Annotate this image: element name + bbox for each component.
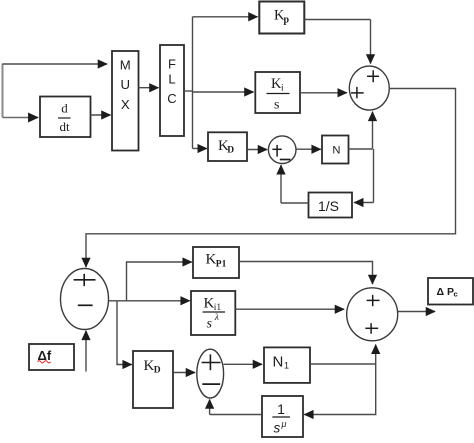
svg-text:s: s	[274, 98, 279, 113]
block N1	[264, 347, 310, 383]
wire Kp output	[304, 19, 370, 21]
block KP1	[193, 247, 239, 278]
wire branch up to KP1	[127, 262, 192, 301]
wire to Ki	[193, 91, 254, 93]
wire 1/S output	[281, 202, 309, 204]
wire KD to sum2	[247, 149, 267, 151]
svg-text:U: U	[121, 77, 131, 92]
svg-text:i: i	[281, 84, 284, 94]
svg-text:1: 1	[284, 361, 289, 371]
wire to 1/S	[354, 202, 373, 204]
wire S5 output to delta Pc	[398, 311, 435, 313]
svg-text:D: D	[227, 145, 234, 155]
wire input to MUX	[3, 63, 108, 65]
block Kp	[259, 2, 304, 34]
wire Ki1 output to S5 left	[235, 308, 344, 310]
wire up to S4 bottom	[209, 400, 211, 415]
svg-text:D: D	[154, 366, 161, 376]
block delta Pc	[428, 278, 473, 305]
svg-text:c: c	[454, 290, 458, 299]
wire N junction up to sum1	[372, 112, 374, 149]
wire down to sum1 top	[370, 20, 372, 64]
wire N1 output junction	[310, 363, 376, 365]
summing junction S5 lower right	[347, 288, 398, 341]
wire N output junction	[349, 148, 373, 150]
wire KP1 output to S5 top	[239, 262, 373, 285]
wire S4 output to N1	[224, 363, 262, 365]
svg-text:C: C	[167, 91, 176, 106]
svg-text:d: d	[61, 101, 68, 116]
svg-text:L: L	[168, 71, 175, 86]
wire N junction down	[373, 149, 375, 203]
svg-text:s: s	[207, 317, 213, 332]
summing junction S3 lower left	[61, 269, 109, 330]
block N	[322, 136, 349, 164]
block delta f label	[29, 344, 74, 370]
summing junction S4 lower small	[197, 349, 224, 398]
svg-text:λ: λ	[214, 313, 219, 323]
svg-text:μ: μ	[281, 419, 287, 429]
svg-text:1: 1	[277, 401, 285, 417]
block 1/S	[309, 193, 353, 218]
svg-text:N: N	[273, 354, 284, 371]
wire branch vertical	[192, 17, 194, 149]
block KD top	[208, 132, 247, 161]
block KD lower	[133, 351, 173, 408]
wire sum2 to N	[296, 148, 321, 150]
wire MUX to FLC	[139, 87, 159, 89]
spellcheck squiggle under delta f	[38, 361, 51, 363]
block FLC	[160, 45, 184, 136]
svg-text:p: p	[284, 15, 290, 26]
wire 1/s^mu output	[210, 414, 262, 416]
wire to KD	[193, 148, 207, 150]
block Ki over s	[255, 72, 300, 113]
wire to Kp	[193, 16, 258, 18]
summing junction S1 top	[349, 66, 389, 110]
svg-text:Δ P: Δ P	[437, 286, 454, 298]
summing junction S2 top small	[268, 136, 296, 164]
wire d/dt to MUX	[91, 114, 111, 116]
wire KD lower to S4	[173, 372, 195, 374]
block d/dt	[40, 97, 91, 138]
svg-text:1/S: 1/S	[318, 198, 339, 214]
wire sum1 output feedback to lower section	[86, 89, 456, 268]
svg-text:P1: P1	[216, 259, 227, 269]
svg-text:dt: dt	[59, 119, 70, 134]
svg-text:M: M	[120, 58, 131, 73]
block Ki1 over s^lambda	[191, 291, 235, 335]
svg-text:X: X	[121, 97, 130, 112]
wire input to d/dt	[3, 117, 39, 119]
wire N1 junction up to S5 bottom	[375, 345, 377, 364]
svg-text:N: N	[332, 145, 340, 157]
wire input branch vertical	[2, 64, 4, 118]
wire delta-f input arrow	[85, 331, 87, 372]
wire branch down to KD lower	[117, 301, 132, 365]
wire N1 junction down to 1/s^mu	[304, 364, 375, 415]
svg-text:s: s	[274, 421, 281, 436]
svg-text:F: F	[168, 56, 176, 71]
wire Ki output to sum1	[300, 92, 347, 94]
wire up to sum2 bottom	[280, 165, 282, 203]
block MUX	[112, 51, 139, 151]
wire S3 output	[109, 300, 190, 302]
wire FLC output	[184, 90, 193, 92]
block 1 over s^mu	[262, 396, 303, 437]
